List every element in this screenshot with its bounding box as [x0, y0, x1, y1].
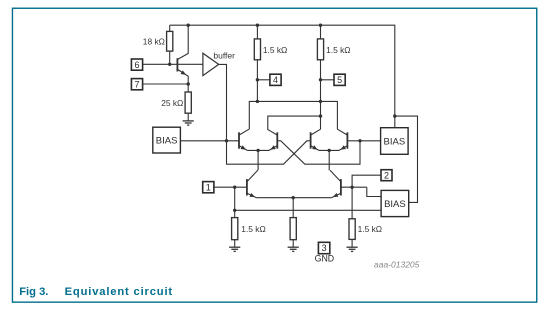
svg-text:Fig 3.: Fig 3. — [19, 286, 48, 298]
svg-text:4: 4 — [273, 75, 278, 85]
svg-text:1: 1 — [206, 182, 211, 192]
svg-text:2: 2 — [384, 170, 389, 180]
svg-text:1.5 kΩ: 1.5 kΩ — [326, 45, 350, 55]
svg-text:BIAS: BIAS — [384, 199, 406, 210]
svg-text:1.5 kΩ: 1.5 kΩ — [358, 224, 382, 234]
svg-text:25 kΩ: 25 kΩ — [161, 98, 183, 108]
svg-text:GND: GND — [315, 254, 335, 264]
svg-text:6: 6 — [134, 60, 139, 70]
svg-text:1.5 kΩ: 1.5 kΩ — [263, 45, 287, 55]
svg-text:buffer: buffer — [213, 51, 235, 61]
svg-text:BIAS: BIAS — [384, 136, 406, 147]
svg-text:5: 5 — [337, 75, 342, 85]
svg-text:aaa-013205: aaa-013205 — [374, 260, 420, 270]
svg-text:7: 7 — [134, 79, 139, 89]
svg-text:1.5 kΩ: 1.5 kΩ — [241, 224, 265, 234]
svg-text:3: 3 — [322, 243, 327, 253]
svg-text:Equivalent circuit: Equivalent circuit — [65, 286, 173, 298]
svg-text:18 kΩ: 18 kΩ — [143, 37, 165, 47]
svg-text:BIAS: BIAS — [156, 135, 178, 146]
